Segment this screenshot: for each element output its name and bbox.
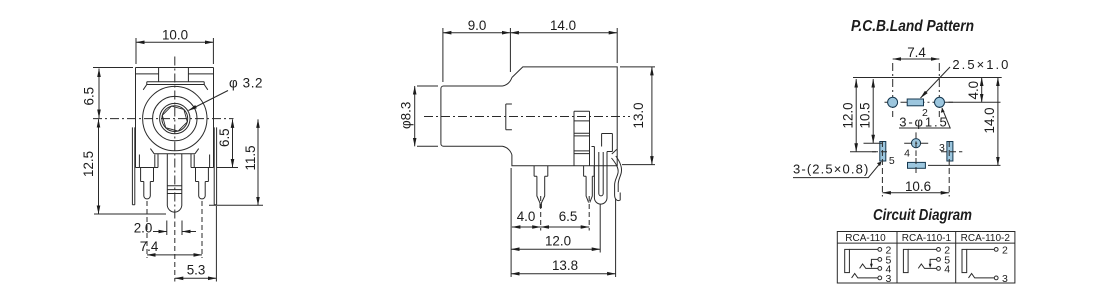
barrel outline [441, 86, 503, 146]
pad4 centerlines [904, 142, 930, 144]
cell1 wire 4 with contact caret [860, 264, 878, 268]
svg-text:4.0: 4.0 [966, 81, 981, 100]
dim 2.0 line with outside arrows [153, 231, 167, 233]
cell3 terminal 3 [994, 276, 998, 280]
vertical centerline [174, 57, 176, 223]
phi 8.3 extension lines [417, 86, 438, 146]
bottom flat chamfers [150, 149, 198, 154]
svg-text:10.6: 10.6 [905, 179, 931, 194]
front top bar [147, 82, 204, 85]
svg-text:2.0: 2.0 [134, 221, 153, 236]
svg-text:12.5: 12.5 [81, 151, 96, 177]
front top tab verticals [159, 68, 189, 83]
table column separators [897, 232, 956, 284]
right side plate [214, 127, 216, 204]
bottom pad vertical dash [915, 158, 917, 174]
left side plate [132, 127, 134, 204]
pcb 10.6 extensions [882, 141, 949, 197]
svg-text:5: 5 [889, 155, 895, 167]
bottom tab verticals [158, 154, 191, 168]
svg-text:13.8: 13.8 [552, 258, 578, 273]
pcb pads row centerline [885, 101, 954, 103]
dim 5.3 extensions [174, 222, 176, 282]
side centerline [424, 116, 630, 118]
bottom side tab verticals [139, 155, 209, 168]
cell2 wire 5 [930, 259, 936, 265]
cell2 wire 2 [908, 248, 936, 250]
left pin block [141, 168, 154, 182]
pcb right ext at pad row [946, 101, 1001, 103]
svg-text:4: 4 [904, 148, 910, 160]
svg-text:12.0: 12.0 [841, 102, 856, 128]
side pin 2 [586, 176, 592, 202]
pcb dim 10.6 line [882, 192, 949, 194]
svg-text:5.3: 5.3 [187, 263, 206, 278]
svg-text:13.0: 13.0 [631, 102, 646, 128]
svg-text:3: 3 [1002, 273, 1008, 285]
right 6.5 bottom extension [217, 167, 239, 169]
mount lug top step [592, 134, 613, 152]
svg-text:3-(2.5×0.8): 3-(2.5×0.8) [793, 162, 868, 177]
svg-text:10.0: 10.0 [162, 28, 188, 43]
table header separator [837, 242, 1015, 244]
mount lug outline [594, 147, 607, 205]
cell2 terminal 5 [937, 258, 941, 262]
extension for 12.0 [599, 205, 601, 253]
svg-text:9.0: 9.0 [468, 18, 487, 33]
pad P2-left circle [888, 97, 898, 107]
dim 9.0 line [443, 32, 511, 34]
svg-text:3: 3 [939, 142, 945, 154]
cell3 wire 3 with contact caret [969, 274, 995, 278]
middle circle [153, 96, 197, 140]
dim 13.0 extensions [620, 67, 655, 165]
svg-text:6.5: 6.5 [559, 209, 578, 224]
svg-text:3: 3 [886, 273, 892, 285]
svg-text:12.0: 12.0 [545, 234, 571, 249]
svg-text:10.5: 10.5 [858, 102, 873, 128]
dim 6.5 right line [232, 119, 234, 167]
dim 13.8 line [511, 273, 615, 275]
pad5 horizontal dash [872, 151, 890, 153]
svg-text:φ 3.2: φ 3.2 [229, 76, 263, 91]
ladder detail [574, 111, 590, 166]
svg-text:14.0: 14.0 [982, 107, 997, 133]
dim 14.0 line [510, 32, 617, 34]
bottom flat [154, 153, 195, 155]
mount lug inner slot [599, 152, 603, 196]
cell1 terminal 3 [878, 276, 882, 280]
cell2 terminal 2 [937, 248, 941, 252]
cell3 wire 2 [967, 248, 995, 250]
side pin 1 [537, 176, 545, 208]
svg-text:φ8.3: φ8.3 [399, 102, 414, 129]
horizontal centerline [93, 118, 234, 120]
pcb 7.4 extension dashdots [893, 63, 940, 117]
right 11.5 bottom extension [209, 204, 263, 206]
pcb bottom-right ext [928, 164, 1001, 166]
side pin 2 block [584, 166, 595, 176]
dim 7.4 pcb line [893, 58, 940, 60]
dim 11.5 right line [257, 119, 259, 205]
svg-text:RCA-110-2: RCA-110-2 [961, 233, 1011, 244]
right pin block [196, 168, 209, 182]
svg-text:4: 4 [944, 263, 950, 275]
svg-text:RCA-110-1: RCA-110-1 [902, 233, 952, 244]
body top edge extension left [93, 67, 133, 69]
pcb dim 14.0 line [997, 78, 999, 166]
svg-text:3-φ1.5: 3-φ1.5 [899, 115, 947, 130]
pad 5 rect [880, 142, 886, 162]
table frame [837, 232, 1015, 284]
svg-text:14.0: 14.0 [550, 18, 576, 33]
front top bar chamfers [143, 85, 208, 90]
dim 4.0/6.5 side line [512, 226, 541, 228]
phi 3.2 leader [189, 91, 229, 111]
pad bottom rect [908, 162, 926, 168]
svg-text:Circuit Diagram: Circuit Diagram [873, 207, 972, 224]
svg-text:P.C.B.Land Pattern: P.C.B.Land Pattern [851, 18, 974, 35]
dim 10.0 line [136, 41, 213, 43]
cell1 wire 5 [871, 259, 877, 265]
extension for 13.8 [615, 199, 617, 277]
dim 7.4 extension dashes [147, 201, 202, 258]
cell2 wire 4 with contact caret [918, 264, 936, 268]
inner hole hex contact edge [162, 106, 187, 131]
dim 12.5 left line [98, 119, 100, 214]
left pin [144, 182, 151, 199]
left extension for bottom dims [510, 168, 512, 277]
dim 10.0 extension lines [136, 38, 213, 64]
pcb dim 10.5 line [872, 79, 874, 143]
dim 2.0 extension lines [167, 221, 182, 236]
front body inner top line [136, 73, 214, 75]
cell3 terminal 2 [994, 248, 998, 252]
svg-text:2: 2 [1002, 244, 1008, 256]
pcb 10.5 bottom ext [864, 142, 883, 144]
side pin centerline dashes [541, 196, 590, 231]
cell1 terminal 4 [878, 267, 882, 271]
label 3-phi1.5 underline and leader [899, 108, 950, 128]
dim 6.5 left line [98, 69, 100, 119]
front body outline [136, 68, 214, 168]
cell1 terminal 2 [878, 248, 882, 252]
dim 13.0 line [651, 67, 653, 165]
svg-text:6.5: 6.5 [217, 128, 232, 147]
label 3-(2.5x0.8) underline and leader [793, 163, 881, 178]
pcb 12.0 bottom ext [850, 151, 876, 153]
svg-text:4.0: 4.0 [517, 209, 536, 224]
label 2.5x1.0 leader [921, 67, 951, 98]
dim 7.4 line [147, 254, 202, 256]
pad P2-right circle [935, 97, 945, 107]
cell1 wire 2 [849, 248, 877, 250]
cell1 contact arrow 5-4 [870, 264, 873, 268]
cell2 contact arrow 5-4 [929, 264, 932, 268]
svg-text:11.5: 11.5 [243, 145, 258, 170]
pcb top reference line [853, 77, 1002, 79]
cell2 terminal 4 [937, 267, 941, 271]
inner ring (hole phi 3.2) [162, 106, 188, 132]
cell1 jack symbol [845, 249, 850, 272]
outer circle [143, 86, 207, 150]
pcb dim 12.0 line [855, 79, 857, 152]
side body outline [512, 67, 617, 166]
svg-text:2.5×1.0: 2.5×1.0 [952, 57, 1008, 72]
svg-text:6.5: 6.5 [82, 87, 97, 106]
cell2 jack symbol [903, 249, 908, 272]
dim 9.0/14.0 extension lines [443, 28, 617, 82]
pcb dim 4.0 line [981, 78, 983, 103]
body bottom edge [136, 167, 214, 169]
dim 12.5 bottom extension [94, 213, 166, 215]
dim phi 8.3 line [414, 86, 416, 146]
boss rect on body face [506, 104, 512, 130]
cell1 terminal 5 [878, 258, 882, 262]
pad 3 rect [947, 142, 953, 162]
center pin [167, 154, 182, 212]
side pin 1 block [534, 166, 548, 176]
cell1 wire 3 with contact caret [852, 274, 878, 278]
barrel-body fillets [503, 78, 512, 155]
svg-text:7.4: 7.4 [140, 239, 159, 254]
right pin [199, 182, 206, 199]
inner ring outer [160, 103, 190, 133]
svg-text:7.4: 7.4 [907, 45, 926, 60]
pad center rect [907, 99, 923, 106]
cell3 jack symbol [962, 249, 967, 272]
pad 4 circle [911, 139, 920, 148]
dim 12.0 line [511, 248, 600, 250]
hook spring [612, 158, 621, 201]
center pin grooves [167, 186, 182, 194]
svg-text:RCA-110: RCA-110 [845, 233, 886, 244]
dim 5.3 line [175, 277, 217, 279]
pad3 horizontal dash [941, 151, 962, 153]
